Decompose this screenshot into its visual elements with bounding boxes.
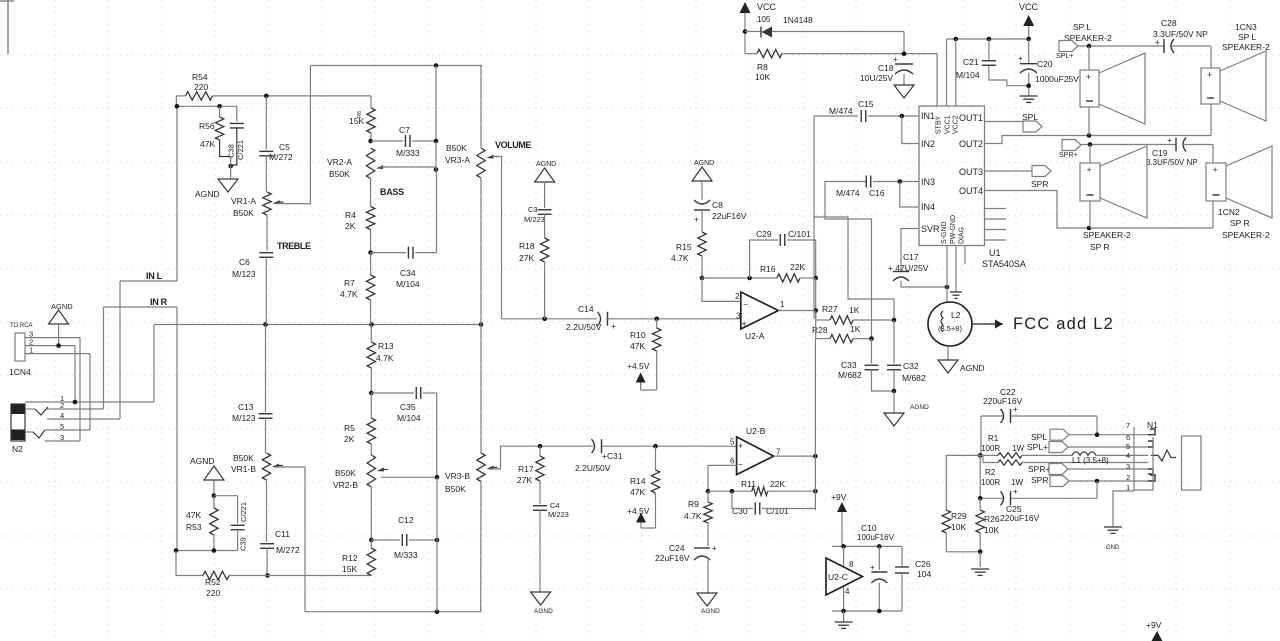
svg-text:3.3UF/50V NP: 3.3UF/50V NP: [1146, 158, 1198, 167]
svg-text:AGND: AGND: [910, 404, 929, 411]
svg-text:AGND: AGND: [536, 161, 556, 168]
svg-text:+: +: [1013, 405, 1018, 414]
node R53/C39 top: [212, 493, 217, 498]
wire R56 row: [176, 105, 236, 107]
svg-text:C13: C13: [238, 402, 254, 412]
svg-text:VOLUME: VOLUME: [495, 140, 531, 150]
wire C31 row to pin5: [540, 445, 593, 447]
svg-text:M/104: M/104: [396, 279, 420, 289]
svg-text:22uF16V: 22uF16V: [712, 211, 747, 221]
wire U2-A output: [778, 310, 815, 312]
wire speaker B column: [1210, 46, 1212, 68]
svg-text:STA540SA: STA540SA: [982, 259, 1026, 269]
svg-text:S-GND: S-GND: [941, 221, 948, 244]
svg-text:+: +: [611, 321, 616, 331]
ground under C20: [1020, 95, 1038, 97]
node C5 top: [264, 94, 269, 99]
svg-text:R29: R29: [951, 511, 967, 521]
wire diode to C18: [903, 32, 905, 54]
wire VR2-A wiper: [380, 166, 436, 168]
ground AGND under C24: [697, 593, 717, 606]
wire VCC2 pin: [955, 39, 957, 106]
wire IN-L drop x=120: [119, 281, 121, 419]
svg-text:R28: R28: [812, 325, 828, 335]
wire C14 rail y=319: [502, 318, 598, 320]
svg-text:C21: C21: [963, 57, 979, 67]
wire R29 branch: [946, 455, 980, 510]
svg-text:VCC2: VCC2: [953, 115, 960, 134]
op-amp U2-A: [741, 292, 779, 329]
op-amp U2-B: [737, 437, 774, 475]
wire VR3-B wiper to R17 row: [490, 446, 540, 469]
svg-text:R5: R5: [344, 423, 355, 433]
svg-text:+: +: [1155, 38, 1160, 47]
wire VR1-B wiper drop: [276, 467, 305, 612]
svg-text:C30: C30: [732, 506, 748, 516]
svg-text:OUT4: OUT4: [959, 186, 983, 196]
wire SPR+ row y=144.5: [1081, 144, 1176, 146]
inductor L2 circle: [928, 302, 972, 346]
svg-text:2.2U/50V: 2.2U/50V: [566, 322, 602, 332]
svg-text:C6: C6: [239, 257, 250, 267]
svg-text:10K: 10K: [951, 522, 966, 532]
node R8/C18: [902, 52, 907, 57]
svg-text:VR1-B: VR1-B: [231, 464, 256, 474]
svg-text:M/272: M/272: [269, 152, 293, 162]
node R14 top: [653, 444, 658, 449]
svg-text:22uF16V: 22uF16V: [655, 553, 690, 563]
svg-text:220: 220: [194, 82, 208, 92]
svg-text:PW-GND: PW-GND: [950, 215, 957, 244]
svg-text:R18: R18: [519, 241, 535, 251]
svg-text:SPL+: SPL+: [1027, 442, 1048, 452]
capacitor C38: [236, 106, 238, 121]
svg-text:+: +: [712, 544, 717, 553]
ground AGND under C4: [531, 592, 551, 605]
svg-text:C33: C33: [841, 360, 857, 370]
wire SPL row: [1069, 434, 1148, 436]
node R10 top: [654, 317, 659, 322]
svg-text:3: 3: [1126, 462, 1130, 471]
node R56/C38 bottom: [228, 164, 233, 169]
svg-text:10K: 10K: [755, 72, 770, 82]
svg-text:L1 (3.5+8): L1 (3.5+8): [1072, 456, 1109, 465]
wire SPL+ row: [1068, 446, 1148, 448]
svg-text:SPR+: SPR+: [1028, 464, 1050, 474]
wire OUT2 route: [985, 136, 1212, 144]
wire N2 tip row 1: [25, 401, 154, 403]
svg-text:R8: R8: [757, 62, 768, 72]
wire IN-L vertical x=177: [176, 106, 178, 281]
wire pin1 drop: [89, 354, 91, 430]
svg-text:1CN4: 1CN4: [9, 367, 31, 377]
svg-text:B50K: B50K: [335, 468, 356, 478]
svg-text:2: 2: [735, 292, 740, 301]
wire S-GND pin: [946, 246, 948, 303]
frame mark: [7, 0, 9, 54]
capacitor C39: [214, 495, 238, 497]
svg-text:27K: 27K: [517, 475, 532, 485]
svg-text:R4: R4: [345, 210, 356, 220]
svg-text:1W: 1W: [1011, 478, 1023, 487]
svg-text:47K: 47K: [200, 139, 215, 149]
svg-text:R15: R15: [676, 242, 692, 252]
svg-text:SPEAKER-2: SPEAKER-2: [1222, 230, 1270, 240]
svg-text:IN3: IN3: [921, 177, 935, 187]
node R18 bottom: [542, 317, 547, 322]
svg-text:+4.5V: +4.5V: [627, 361, 650, 371]
node IN1: [900, 114, 905, 119]
svg-text:VR3-A: VR3-A: [445, 155, 470, 165]
svg-text:U1: U1: [989, 248, 1001, 258]
svg-text:4: 4: [845, 587, 850, 596]
wire C15 left route: [814, 217, 894, 319]
connector 1CN4: [15, 333, 25, 361]
svg-text:R10: R10: [630, 330, 646, 340]
wire signal rail riser x=154: [153, 325, 155, 402]
svg-text:1CN3: 1CN3: [1235, 22, 1257, 32]
wire VR3-B bottom to rail: [480, 482, 482, 612]
svg-text:AGND: AGND: [51, 302, 73, 311]
wire R16 row: [702, 277, 777, 279]
node R1/R2 left: [978, 453, 983, 458]
svg-text:VCC1: VCC1: [945, 115, 952, 134]
wire VR3-A wiper drop: [492, 157, 502, 319]
wire U2-B output: [774, 455, 816, 457]
svg-text:M/123: M/123: [232, 413, 256, 423]
svg-text:SPL+: SPL+: [1056, 53, 1073, 60]
wire L2 bottom: [947, 346, 949, 360]
wire SPL+ row y=46: [1078, 45, 1164, 47]
svg-text:C16: C16: [869, 188, 885, 198]
chassis ground N1: [1104, 526, 1122, 528]
wire top row y=65.5: [310, 65, 482, 67]
wire N1 bus: [1133, 427, 1135, 491]
svg-text:IN2: IN2: [921, 139, 935, 149]
svg-text:C/101: C/101: [766, 506, 789, 516]
svg-text:8: 8: [849, 560, 854, 569]
svg-text:C8: C8: [712, 200, 723, 210]
svg-text:220uF16V: 220uF16V: [1000, 513, 1040, 523]
node R17 top: [538, 444, 543, 449]
svg-text:+C31: +C31: [602, 451, 623, 461]
svg-text:STBY: STBY: [936, 115, 943, 134]
svg-text:GND: GND: [1106, 545, 1120, 551]
svg-text:SPEAKER-2: SPEAKER-2: [1083, 230, 1131, 240]
svg-text:C32: C32: [903, 361, 919, 371]
ground under U2-C: [843, 611, 845, 622]
svg-text:+9V: +9V: [1146, 620, 1162, 630]
svg-text:27K: 27K: [519, 253, 534, 263]
svg-text:IN4: IN4: [921, 202, 935, 212]
svg-text:+: +: [1013, 487, 1018, 496]
svg-text:C28: C28: [1161, 18, 1177, 28]
svg-text:R53: R53: [186, 522, 202, 532]
wire VR2-B wiper: [381, 476, 437, 478]
svg-text:10K: 10K: [984, 525, 999, 535]
svg-text:C7: C7: [399, 125, 410, 135]
svg-text:M/682: M/682: [902, 373, 926, 383]
N1 switch lever: [1151, 450, 1176, 461]
svg-text:U2-C: U2-C: [828, 572, 848, 582]
IC right stub pins: [985, 208, 1007, 210]
svg-text:SPR: SPR: [1031, 475, 1048, 485]
wire IN-L horizontal: [120, 280, 177, 282]
svg-text:C3: C3: [528, 205, 538, 214]
svg-text:C35: C35: [400, 402, 416, 412]
svg-text:1: 1: [780, 300, 785, 309]
svg-text:C39: C39: [239, 537, 248, 551]
svg-text:1000uF25V: 1000uF25V: [1035, 74, 1079, 84]
svg-text:VCC: VCC: [757, 2, 777, 12]
svg-text:AGND: AGND: [534, 608, 553, 615]
svg-text:BASS: BASS: [380, 187, 404, 197]
svg-text:4.7K: 4.7K: [340, 289, 358, 299]
N1 contacts: [1148, 429, 1155, 435]
svg-text:SPR: SPR: [1031, 179, 1048, 189]
svg-text:220: 220: [206, 588, 220, 598]
svg-text:OUT3: OUT3: [959, 167, 983, 177]
svg-text:AGND: AGND: [701, 608, 720, 615]
wire SPR row: [1069, 480, 1148, 482]
wire pin6 stub: [708, 465, 737, 491]
node C20 bottom: [1026, 83, 1031, 88]
svg-text:C34: C34: [400, 268, 416, 278]
svg-text:SPL: SPL: [1031, 432, 1047, 442]
svg-text:SP L: SP L: [1238, 32, 1257, 42]
wire C35 right riser: [436, 393, 438, 477]
svg-text:R7: R7: [344, 278, 355, 288]
svg-text:4.7K: 4.7K: [376, 353, 394, 363]
svg-text:VR3-B: VR3-B: [445, 471, 470, 481]
svg-text:IN L: IN L: [146, 271, 163, 281]
svg-text:−: −: [738, 460, 743, 469]
svg-text:2K: 2K: [344, 434, 355, 444]
svg-text:SPEAKER-2: SPEAKER-2: [1222, 42, 1270, 52]
svg-text:R13: R13: [378, 341, 394, 351]
wire IN-R vertical x=177 down: [176, 307, 178, 551]
flag SPR+ mid: [1062, 140, 1081, 151]
node R16 right: [813, 276, 818, 281]
svg-text:1CN2: 1CN2: [1218, 207, 1240, 217]
svg-text:R6: R6: [357, 111, 363, 118]
svg-text:C12: C12: [398, 515, 414, 525]
wire OUT4 route: [985, 191, 1214, 229]
flag SPR out: [1032, 166, 1051, 177]
svg-text:M/333: M/333: [396, 148, 420, 158]
svg-text:R56: R56: [199, 121, 215, 131]
bottom rail y=612: [305, 611, 481, 613]
switch contact lower: [33, 430, 45, 438]
wire pin8 stub: [843, 546, 845, 566]
IC U1 STA540SA body: [919, 106, 985, 246]
svg-text:VR1-A: VR1-A: [231, 196, 256, 206]
svg-text:M/104: M/104: [397, 413, 421, 423]
node pin6/R9: [706, 489, 711, 494]
svg-text:AGND: AGND: [960, 363, 985, 373]
svg-text:4.7K: 4.7K: [671, 253, 689, 263]
svg-text:TREBLE: TREBLE: [277, 241, 311, 251]
svg-text:+: +: [742, 319, 747, 329]
svg-text:SP R: SP R: [1230, 218, 1250, 228]
svg-text:5: 5: [1126, 442, 1130, 451]
wire C39/R53 bottom rail: [176, 550, 238, 552]
svg-text:M/223: M/223: [524, 215, 545, 224]
svg-text:R1: R1: [988, 434, 999, 443]
wire pin2 stub: [702, 278, 741, 301]
svg-text:C5: C5: [279, 142, 290, 152]
svg-text:6: 6: [1126, 433, 1130, 442]
svg-text:C17: C17: [903, 252, 919, 262]
svg-text:6: 6: [730, 457, 735, 466]
svg-text:N2: N2: [12, 444, 23, 454]
wire x=176 to R52 row: [175, 551, 177, 576]
svg-text:B50K: B50K: [329, 169, 350, 179]
svg-text:M/104: M/104: [956, 70, 980, 80]
wire C12 right riser: [436, 477, 438, 540]
speaker D 1CN2: [1212, 145, 1214, 164]
wire C15 row: [814, 115, 858, 117]
svg-text:L2: L2: [951, 310, 961, 320]
svg-text:+: +: [870, 563, 875, 572]
svg-text:100R: 100R: [981, 444, 1000, 453]
svg-text:4: 4: [1126, 451, 1130, 460]
svg-text:1K: 1K: [850, 324, 861, 334]
svg-text:105: 105: [757, 15, 771, 24]
svg-text:3: 3: [736, 312, 741, 321]
svg-text:C/221: C/221: [239, 502, 248, 522]
svg-text:IN1: IN1: [921, 111, 935, 121]
svg-text:+: +: [694, 215, 699, 224]
node C7 left: [368, 139, 373, 144]
wire pin4 stub: [843, 587, 845, 611]
wire VCC1 pin: [946, 39, 948, 106]
svg-text:VR2-A: VR2-A: [327, 157, 352, 167]
wire pin2 drop: [74, 346, 76, 402]
wire C34 right riser: [436, 170, 438, 253]
svg-text:B50K: B50K: [446, 143, 467, 153]
svg-text:C4: C4: [550, 501, 560, 510]
wire row 5: [45, 429, 90, 431]
svg-text:C11: C11: [275, 529, 290, 539]
wire R28 left to U2-B out: [814, 339, 816, 457]
svg-text:(3.5+8): (3.5+8): [938, 324, 962, 333]
svg-text:+: +: [738, 441, 743, 451]
svg-text:M/223: M/223: [548, 510, 569, 519]
wire C16 left route: [825, 182, 872, 339]
svg-text:7: 7: [1126, 421, 1130, 430]
FCC callout: [972, 323, 1003, 325]
node pin2/AGND junction: [56, 343, 61, 348]
node R15 bottom / R16 row: [700, 276, 705, 281]
node S-GND/C17: [945, 285, 950, 290]
svg-text:C29: C29: [756, 229, 772, 239]
wire OUT3 to SPR flag: [985, 170, 1033, 172]
svg-text:C14: C14: [578, 304, 594, 314]
svg-text:R54: R54: [192, 72, 208, 82]
svg-text:M/272: M/272: [276, 545, 300, 555]
wire IN-R horizontal: [104, 306, 178, 308]
wire x=481 down to VR3-B: [480, 325, 482, 454]
svg-text:C24: C24: [669, 543, 685, 553]
svg-text:2: 2: [1126, 473, 1130, 482]
svg-text:B50K: B50K: [233, 208, 254, 218]
svg-text:R16: R16: [760, 264, 776, 274]
wire OUT1 to SPL flag: [985, 121, 1024, 123]
svg-text:+4.5V: +4.5V: [627, 506, 650, 516]
wire mid rail A y=325: [154, 324, 481, 326]
wire IN1-IN2 link: [902, 116, 919, 144]
svg-text:AGND: AGND: [195, 189, 220, 199]
svg-text:100R: 100R: [981, 478, 1000, 487]
svg-text:C26: C26: [915, 559, 931, 569]
svg-text:+: +: [1018, 54, 1023, 63]
svg-text:C15: C15: [858, 99, 874, 109]
svg-text:R17: R17: [518, 464, 534, 474]
wire jack stub: [25, 408, 35, 410]
svg-text:DIAG: DIAG: [959, 227, 966, 244]
svg-text:B50K: B50K: [233, 453, 254, 463]
svg-text:U2-A: U2-A: [745, 331, 765, 341]
node wiper/x436: [434, 167, 439, 172]
svg-text:C20: C20: [1037, 59, 1053, 69]
svg-text:+: +: [1087, 165, 1092, 175]
node R54 left: [175, 96, 177, 106]
wire R11 row: [708, 490, 752, 492]
svg-text:C10: C10: [861, 523, 877, 533]
ground under PW-GND: [950, 291, 962, 293]
svg-text:M/123: M/123: [232, 269, 256, 279]
op-amp U2-C: [826, 558, 863, 595]
ground under R26: [971, 568, 989, 570]
svg-text:R12: R12: [342, 553, 358, 563]
svg-text:2.2U/50V: 2.2U/50V: [575, 463, 611, 473]
ground AGND under L2: [938, 360, 958, 373]
svg-text:2K: 2K: [345, 221, 356, 231]
wire row 4: [47, 418, 120, 420]
N1 jack body: [1152, 437, 1154, 486]
wire IN3-IN4 link: [900, 182, 919, 208]
svg-text:+: +: [1167, 136, 1172, 145]
svg-text:1N4148: 1N4148: [783, 15, 813, 25]
svg-text:104: 104: [917, 569, 931, 579]
svg-text:TO RCA: TO RCA: [10, 323, 33, 329]
node U2-A output: [813, 308, 818, 313]
svg-text:47K: 47K: [630, 341, 645, 351]
svg-text:AGND: AGND: [190, 456, 215, 466]
wire row 2: [47, 408, 104, 410]
svg-text:+: +: [1213, 165, 1218, 175]
node speaker A bottom: [1087, 133, 1092, 138]
wire x=436 from top row: [435, 66, 437, 142]
wire row 3: [45, 440, 80, 442]
node IN3: [898, 179, 903, 184]
svg-text:SP R: SP R: [1090, 242, 1110, 252]
node C7 right: [434, 139, 439, 144]
svg-text:U2-B: U2-B: [746, 426, 766, 436]
svg-text:R27: R27: [822, 304, 838, 314]
speaker C SP R: [1089, 145, 1091, 164]
node R28 right: [869, 336, 874, 341]
node C35 left: [369, 391, 374, 396]
svg-text:SPR+: SPR+: [1059, 152, 1077, 159]
svg-text:R9: R9: [688, 499, 699, 509]
wire PW-GND pin: [955, 246, 957, 293]
svg-text:+: +: [1086, 72, 1091, 82]
wire U2-C top rail: [832, 545, 902, 547]
svg-text:C/101: C/101: [788, 229, 811, 239]
wire VR3 vertical x=481: [480, 66, 482, 149]
